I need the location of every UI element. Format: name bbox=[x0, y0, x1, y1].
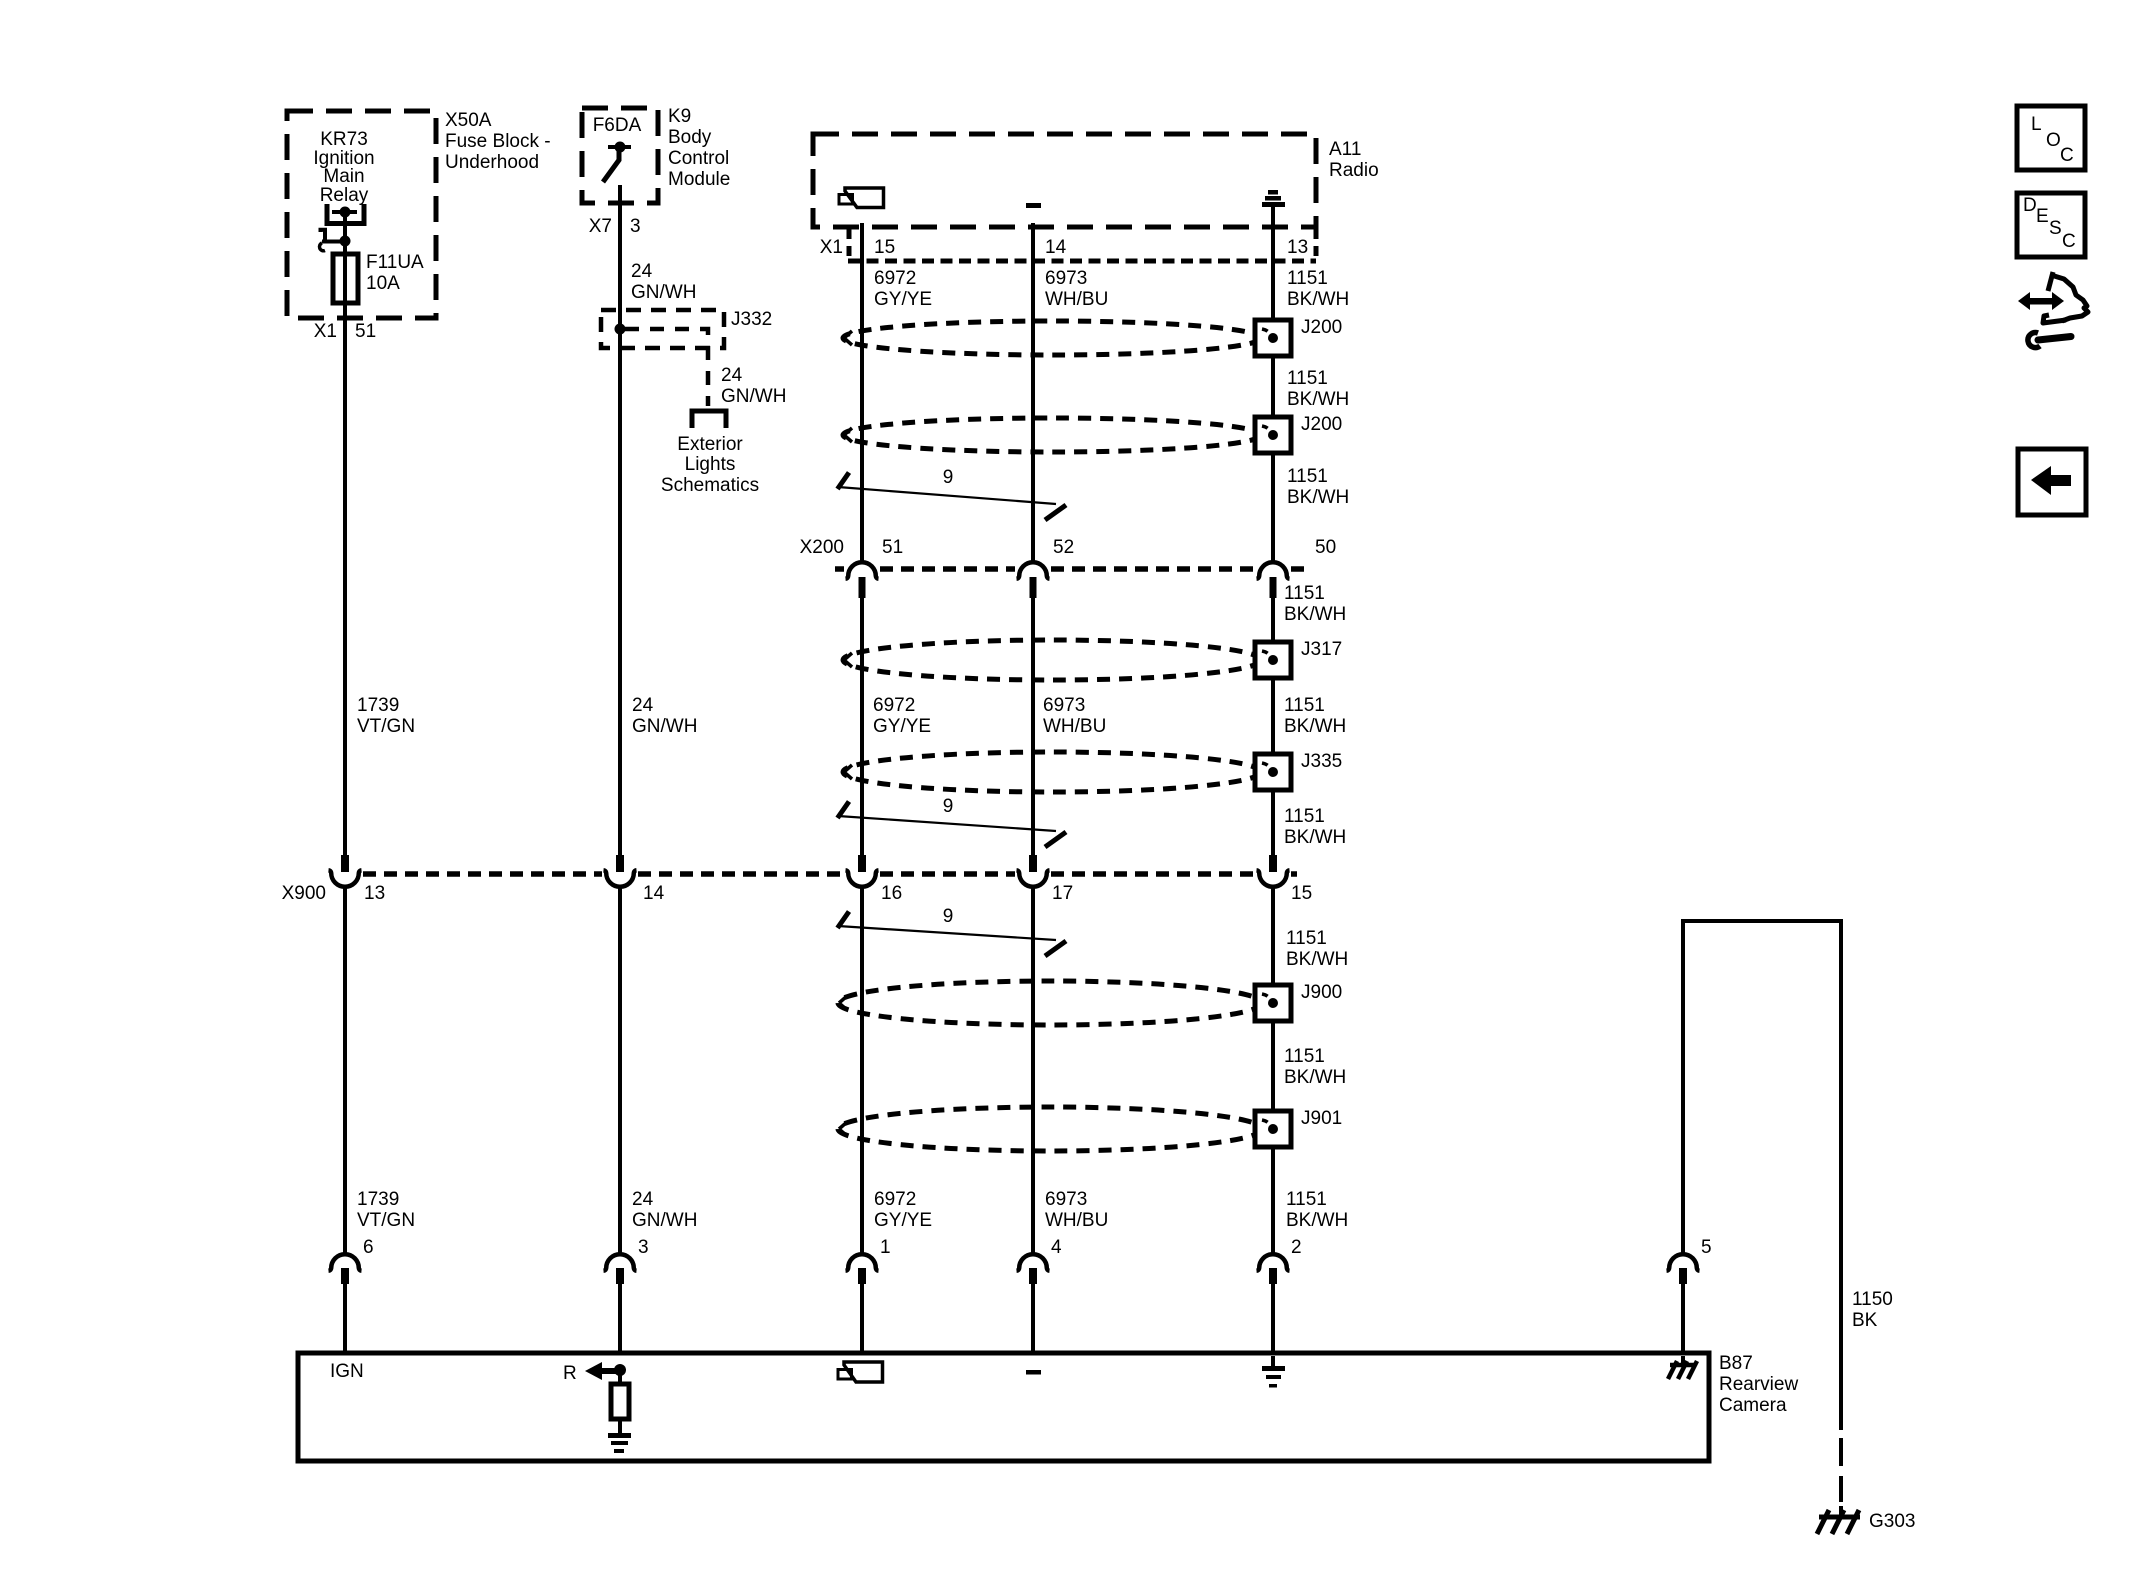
svg-text:Module: Module bbox=[668, 169, 730, 190]
svg-text:1151: 1151 bbox=[1284, 695, 1325, 716]
camera icon inside B87 bbox=[838, 1362, 883, 1382]
svg-text:BK/WH: BK/WH bbox=[1284, 1067, 1346, 1088]
splice J332 dashed box bbox=[601, 310, 724, 348]
connector X900 socket cup bbox=[1017, 870, 1050, 887]
svg-text:X200: X200 bbox=[800, 537, 844, 558]
wire into camera pin 3 bbox=[618, 1284, 622, 1353]
svg-text:F6DA: F6DA bbox=[593, 115, 642, 136]
shield drain ellipse to J317 bbox=[843, 640, 1261, 680]
radio A11 label bbox=[1329, 139, 1379, 181]
camera B87 box bbox=[298, 1353, 1709, 1461]
svg-text:BK/WH: BK/WH bbox=[1286, 1210, 1348, 1231]
camera connector pin 5 bbox=[1679, 1268, 1687, 1284]
fuse block X50A dashed box (KR73) bbox=[287, 111, 436, 318]
wire resistor to ground bbox=[618, 1419, 622, 1433]
svg-text:1739: 1739 bbox=[357, 1189, 399, 1210]
svg-text:J332: J332 bbox=[731, 309, 772, 330]
twisted pair symbol (9 twists) bbox=[838, 906, 1067, 956]
svg-text:Rearview: Rearview bbox=[1719, 1374, 1798, 1395]
svg-text:O: O bbox=[2046, 130, 2061, 151]
dashed branch wire to exterior lights bbox=[625, 329, 708, 406]
svg-text:1151: 1151 bbox=[1284, 806, 1325, 827]
svg-text:14: 14 bbox=[643, 883, 665, 904]
DESC icon box bbox=[2017, 193, 2085, 257]
svg-text:15: 15 bbox=[874, 237, 895, 258]
svg-text:52: 52 bbox=[1053, 537, 1074, 558]
wire label 1151 BK/WH between J200s bbox=[1287, 368, 1349, 410]
wire 1150 BK dashed segment bbox=[1839, 1438, 1843, 1502]
connector X900 socket cup bbox=[604, 870, 637, 887]
svg-text:J335: J335 bbox=[1301, 751, 1342, 772]
relay KR73 contact bracket bbox=[327, 204, 364, 224]
camera connector cup pin 5 bbox=[1667, 1254, 1700, 1271]
splice J200 lower box bbox=[1255, 417, 1291, 453]
svg-text:6972: 6972 bbox=[874, 268, 916, 289]
wire label 24 GN/WH mid bbox=[632, 695, 697, 737]
relay KR73 coil tick bbox=[321, 230, 326, 241]
svg-text:51: 51 bbox=[355, 321, 376, 342]
wire label 24 GN/WH bottom bbox=[632, 1189, 697, 1231]
svg-text:GY/YE: GY/YE bbox=[874, 289, 932, 310]
svg-text:24: 24 bbox=[632, 695, 654, 716]
svg-text:GN/WH: GN/WH bbox=[721, 386, 786, 407]
svg-text:1: 1 bbox=[880, 1237, 891, 1258]
svg-text:L: L bbox=[2031, 114, 2042, 135]
svg-text:1151: 1151 bbox=[1286, 1189, 1327, 1210]
connector X900 socket cup bbox=[1257, 870, 1290, 887]
svg-text:1151: 1151 bbox=[1286, 928, 1327, 949]
svg-text:VT/GN: VT/GN bbox=[357, 716, 415, 737]
svg-text:C: C bbox=[2060, 145, 2074, 166]
svg-text:6: 6 bbox=[363, 1237, 374, 1258]
svg-text:Control: Control bbox=[668, 148, 729, 169]
svg-text:2: 2 bbox=[1291, 1237, 1302, 1258]
svg-text:J200: J200 bbox=[1301, 414, 1342, 435]
svg-text:Exterior: Exterior bbox=[677, 434, 743, 455]
wire into camera pin 2 bbox=[1271, 1284, 1275, 1353]
wire label 1150 BK bbox=[1852, 1289, 1893, 1331]
connector X200 pin bbox=[1270, 577, 1277, 598]
wire label 1739 VT/GN mid bbox=[357, 695, 415, 737]
wire label 1151 BK/WH below X900 bbox=[1286, 928, 1348, 970]
svg-text:6973: 6973 bbox=[1043, 695, 1085, 716]
svg-text:BK/WH: BK/WH bbox=[1284, 827, 1346, 848]
wire label 1151 BK/WH bottom bbox=[1286, 1189, 1348, 1231]
camera connector pin 6 bbox=[341, 1268, 349, 1284]
svg-text:GN/WH: GN/WH bbox=[632, 716, 697, 737]
wire to internal chassis ground bbox=[1681, 1356, 1685, 1364]
svg-text:BK/WH: BK/WH bbox=[1287, 487, 1349, 508]
camera connector pin 4 bbox=[1029, 1268, 1037, 1284]
connector X900 pin bbox=[341, 855, 349, 872]
shield drain ellipse to J200 upper bbox=[843, 321, 1261, 355]
svg-text:16: 16 bbox=[881, 883, 902, 904]
svg-text:E: E bbox=[2036, 206, 2049, 227]
wire label 1151 BK/WH below J200 bbox=[1287, 466, 1349, 508]
connector X900 pin bbox=[858, 855, 866, 872]
svg-text:6973: 6973 bbox=[1045, 268, 1087, 289]
wire bridge from camera pin 5 bbox=[1683, 921, 1841, 1430]
splice J200 upper box bbox=[1255, 320, 1291, 356]
svg-text:6972: 6972 bbox=[874, 1189, 916, 1210]
camera connector pin 1 bbox=[858, 1268, 866, 1284]
fuse block label X50A bbox=[445, 110, 551, 173]
fuse F11UA value label bbox=[366, 252, 424, 294]
switch F6DA pivot dot bbox=[615, 142, 626, 153]
svg-text:24: 24 bbox=[632, 1189, 654, 1210]
svg-text:24: 24 bbox=[721, 365, 743, 386]
svg-text:WH/BU: WH/BU bbox=[1045, 289, 1108, 310]
wire label 1151 BK/WH mid bbox=[1284, 695, 1346, 737]
internal resistor bbox=[611, 1384, 629, 1419]
camera icon inside radio bbox=[839, 188, 884, 208]
internal ground symbol (resistor) bbox=[608, 1433, 631, 1453]
switch F6DA blade bbox=[603, 150, 619, 182]
svg-text:3: 3 bbox=[638, 1237, 649, 1258]
svg-text:3: 3 bbox=[630, 216, 641, 237]
wire label 6973 WH/BU mid bbox=[1043, 695, 1106, 737]
relay KR73 contact bar bbox=[332, 210, 357, 214]
minus sign inside B87 bbox=[1026, 1370, 1041, 1375]
wire into camera pin 4 bbox=[1031, 1284, 1035, 1353]
wire into camera pin 5 bbox=[1681, 1284, 1685, 1353]
svg-text:Fuse Block -: Fuse Block - bbox=[445, 131, 551, 152]
connector X200 socket cup bbox=[1257, 562, 1290, 579]
ground symbol inside radio bbox=[1262, 190, 1285, 207]
svg-text:17: 17 bbox=[1052, 883, 1073, 904]
svg-text:10A: 10A bbox=[366, 273, 400, 294]
connector X200 socket cup bbox=[846, 562, 879, 579]
svg-text:WH/BU: WH/BU bbox=[1043, 716, 1106, 737]
svg-text:1151: 1151 bbox=[1284, 583, 1325, 604]
ground G303 chassis symbol bbox=[1817, 1506, 1860, 1534]
connector X1 band right tick bbox=[1314, 229, 1319, 261]
svg-text:VT/GN: VT/GN bbox=[357, 1210, 415, 1231]
svg-text:K9: K9 bbox=[668, 106, 691, 127]
off-page connector bracket bbox=[692, 411, 726, 428]
relay KR73 coil junction dot bbox=[340, 236, 351, 247]
svg-text:A11: A11 bbox=[1329, 139, 1361, 160]
svg-text:BK/WH: BK/WH bbox=[1287, 389, 1349, 410]
splice J335 box bbox=[1255, 754, 1291, 790]
module K9 label bbox=[668, 106, 730, 190]
svg-text:1151: 1151 bbox=[1284, 1046, 1325, 1067]
wire 6972 GY/YE (radio pin 15) bbox=[860, 223, 864, 562]
radio A11 dashed box bbox=[813, 134, 1316, 227]
svg-text:BK: BK bbox=[1852, 1310, 1878, 1331]
svg-text:X7: X7 bbox=[589, 216, 612, 237]
wire label 6973 WH/BU bottom bbox=[1045, 1189, 1108, 1231]
connector X900 socket cup bbox=[329, 870, 362, 887]
svg-text:1151: 1151 bbox=[1287, 368, 1328, 389]
svg-text:Relay: Relay bbox=[320, 185, 369, 206]
svg-text:Radio: Radio bbox=[1329, 160, 1379, 181]
wire label 24 GN/WH branch bbox=[721, 365, 786, 407]
relay KR73 name label bbox=[313, 129, 374, 206]
twisted pair symbol (9 twists) bbox=[838, 467, 1067, 520]
camera B87 label bbox=[1719, 1353, 1798, 1416]
splice J332 dot bbox=[615, 324, 626, 335]
svg-text:14: 14 bbox=[1045, 237, 1067, 258]
svg-text:Body: Body bbox=[668, 127, 712, 148]
svg-text:1150: 1150 bbox=[1852, 1289, 1893, 1310]
wire to internal resistor bbox=[618, 1370, 622, 1384]
svg-text:J900: J900 bbox=[1301, 982, 1342, 1003]
svg-text:WH/BU: WH/BU bbox=[1045, 1210, 1108, 1231]
svg-text:13: 13 bbox=[1287, 237, 1308, 258]
switch F6DA contact bar bbox=[608, 145, 631, 149]
minus sign inside radio bbox=[1026, 203, 1041, 208]
wire label 6972 GY/YE sec1 bbox=[874, 268, 932, 310]
relay KR73 coil bar bbox=[322, 240, 348, 244]
connector X200 pin bbox=[859, 577, 866, 598]
camera connector cup pin 4 bbox=[1017, 1254, 1050, 1271]
svg-text:15: 15 bbox=[1291, 883, 1312, 904]
connector X900 pin bbox=[1029, 855, 1037, 872]
svg-text:S: S bbox=[2049, 218, 2062, 239]
svg-text:9: 9 bbox=[943, 796, 954, 817]
shield drain ellipse to J335 bbox=[843, 752, 1261, 792]
svg-text:6972: 6972 bbox=[873, 695, 915, 716]
connector X200 socket cup bbox=[1017, 562, 1050, 579]
svg-text:BK/WH: BK/WH bbox=[1284, 716, 1346, 737]
wire 24 GN/WH (lower) bbox=[618, 888, 622, 1254]
wire 1151 BK/WH (lower) bbox=[1271, 888, 1275, 1254]
svg-text:13: 13 bbox=[364, 883, 385, 904]
connector X900 dashed body line bbox=[363, 871, 1297, 877]
wire 6972 GY/YE (middle) bbox=[860, 598, 864, 855]
svg-text:F11UA: F11UA bbox=[366, 252, 424, 273]
svg-text:6973: 6973 bbox=[1045, 1189, 1087, 1210]
wire label 1151 BK/WH sec1 bbox=[1287, 268, 1349, 310]
svg-text:24: 24 bbox=[631, 261, 653, 282]
camera connector cup pin 6 bbox=[329, 1254, 362, 1271]
back arrow icon box bbox=[2018, 449, 2086, 515]
shield drain ellipse to J900 bbox=[838, 981, 1262, 1025]
svg-text:Schematics: Schematics bbox=[661, 475, 759, 496]
relay KR73 coil hook bbox=[319, 243, 325, 251]
svg-text:X50A: X50A bbox=[445, 110, 492, 131]
svg-text:BK/WH: BK/WH bbox=[1284, 604, 1346, 625]
svg-text:KR73: KR73 bbox=[320, 129, 368, 150]
wire label 1739 VT/GN bottom bbox=[357, 1189, 415, 1231]
splice J900 box bbox=[1255, 985, 1291, 1021]
svg-text:BK/WH: BK/WH bbox=[1286, 949, 1348, 970]
wire 1739 VT/GN (middle) bbox=[343, 318, 347, 855]
svg-text:X1: X1 bbox=[820, 237, 843, 258]
wire 6972 GY/YE (lower) bbox=[860, 888, 864, 1254]
twisted pair symbol (9 twists) bbox=[838, 796, 1067, 847]
svg-text:J901: J901 bbox=[1301, 1108, 1342, 1129]
connector X7 pin 3 label bbox=[589, 216, 641, 237]
fuse F11UA bbox=[333, 254, 358, 303]
shield drain ellipse to J901 bbox=[838, 1107, 1262, 1151]
wire 24 GN/WH from F6DA down bbox=[618, 185, 622, 855]
svg-text:Lights: Lights bbox=[685, 454, 736, 475]
svg-text:9: 9 bbox=[943, 906, 954, 927]
body control module K9 dashed box (F6DA) bbox=[582, 108, 658, 203]
svg-text:50: 50 bbox=[1315, 537, 1336, 558]
wire 6973 WH/BU (lower) bbox=[1031, 888, 1035, 1254]
svg-text:Camera: Camera bbox=[1719, 1395, 1787, 1416]
svg-text:B87: B87 bbox=[1719, 1353, 1753, 1374]
svg-text:J200: J200 bbox=[1301, 317, 1342, 338]
svg-text:Main: Main bbox=[323, 166, 364, 187]
wire label 6973 WH/BU sec1 bbox=[1045, 268, 1108, 310]
svg-text:BK/WH: BK/WH bbox=[1287, 289, 1349, 310]
wire 1739 VT/GN (lower) bbox=[343, 888, 347, 1254]
svg-text:X1: X1 bbox=[314, 321, 337, 342]
wire 1151 BK/WH (middle) bbox=[1271, 598, 1275, 855]
wire 6973 WH/BU (radio pin 14) bbox=[1031, 223, 1035, 562]
camera connector pin 3 bbox=[616, 1268, 624, 1284]
R node junction dot bbox=[614, 1364, 626, 1376]
connector X200 dashed body line bbox=[835, 566, 1307, 572]
svg-text:J317: J317 bbox=[1301, 639, 1342, 660]
svg-text:D: D bbox=[2023, 195, 2037, 216]
svg-text:C: C bbox=[2062, 231, 2076, 252]
connector X1 band left tick bbox=[847, 229, 852, 261]
internal ground symbol (pin 2) bbox=[1262, 1366, 1285, 1388]
R input arrow bbox=[585, 1362, 619, 1380]
shield drain ellipse to J200 lower bbox=[843, 418, 1261, 452]
svg-text:4: 4 bbox=[1051, 1237, 1062, 1258]
svg-text:IGN: IGN bbox=[330, 1361, 364, 1382]
splice J901 box bbox=[1255, 1111, 1291, 1147]
wire into camera pin 1 bbox=[860, 1284, 864, 1353]
splice J317 box bbox=[1255, 642, 1291, 678]
wire label 6972 GY/YE mid bbox=[873, 695, 931, 737]
wire 1151 BK/WH (radio pin 13) bbox=[1271, 207, 1275, 562]
wire label 6972 GY/YE bottom bbox=[874, 1189, 932, 1231]
svg-text:GY/YE: GY/YE bbox=[873, 716, 931, 737]
connector X1 band bottom dotted line bbox=[848, 259, 1316, 264]
svg-text:1151: 1151 bbox=[1287, 466, 1328, 487]
connector X900 socket cup bbox=[846, 870, 879, 887]
camera connector cup pin 2 bbox=[1257, 1254, 1290, 1271]
connector X200 pin bbox=[1030, 577, 1037, 598]
svg-text:X900: X900 bbox=[282, 883, 326, 904]
LOC icon box bbox=[2017, 106, 2085, 170]
svg-text:1151: 1151 bbox=[1287, 268, 1328, 289]
svg-text:G303: G303 bbox=[1869, 1511, 1915, 1532]
svg-text:R: R bbox=[563, 1363, 577, 1384]
connector X900 pin bbox=[616, 855, 624, 872]
svg-text:1739: 1739 bbox=[357, 695, 399, 716]
svg-text:GN/WH: GN/WH bbox=[631, 282, 696, 303]
wire from relay contact to fuse bbox=[343, 212, 347, 318]
relay KR73 contact junction dot bbox=[340, 207, 351, 218]
connector X900 pin bbox=[1269, 855, 1277, 872]
internal chassis ground (pin 5) bbox=[1668, 1361, 1697, 1379]
svg-text:5: 5 bbox=[1701, 1237, 1712, 1258]
svg-text:9: 9 bbox=[943, 467, 954, 488]
wire label 24 GN/WH top bbox=[631, 261, 696, 303]
camera connector cup pin 1 bbox=[846, 1254, 879, 1271]
schematic navigation icon (arrows and wrench) bbox=[2018, 272, 2088, 348]
camera connector cup pin 3 bbox=[604, 1254, 637, 1271]
svg-text:GY/YE: GY/YE bbox=[874, 1210, 932, 1231]
camera connector pin 2 bbox=[1269, 1268, 1277, 1284]
wire 6973 WH/BU (middle) bbox=[1031, 598, 1035, 855]
wire into camera pin 6 bbox=[343, 1284, 347, 1353]
connector X1 pin 51 label (fuse block) bbox=[314, 321, 376, 342]
wire to internal ground bbox=[1271, 1356, 1275, 1366]
off-page destination label Exterior Lights Schematics bbox=[661, 434, 759, 496]
svg-text:Underhood: Underhood bbox=[445, 152, 539, 173]
svg-text:GN/WH: GN/WH bbox=[632, 1210, 697, 1231]
svg-text:51: 51 bbox=[882, 537, 903, 558]
wire label 1151 BK/WH above X900 bbox=[1284, 806, 1346, 848]
wire label 1151 BK/WH between J900 J901 bbox=[1284, 1046, 1346, 1088]
wire label 1151 BK/WH below X200 bbox=[1284, 583, 1346, 625]
